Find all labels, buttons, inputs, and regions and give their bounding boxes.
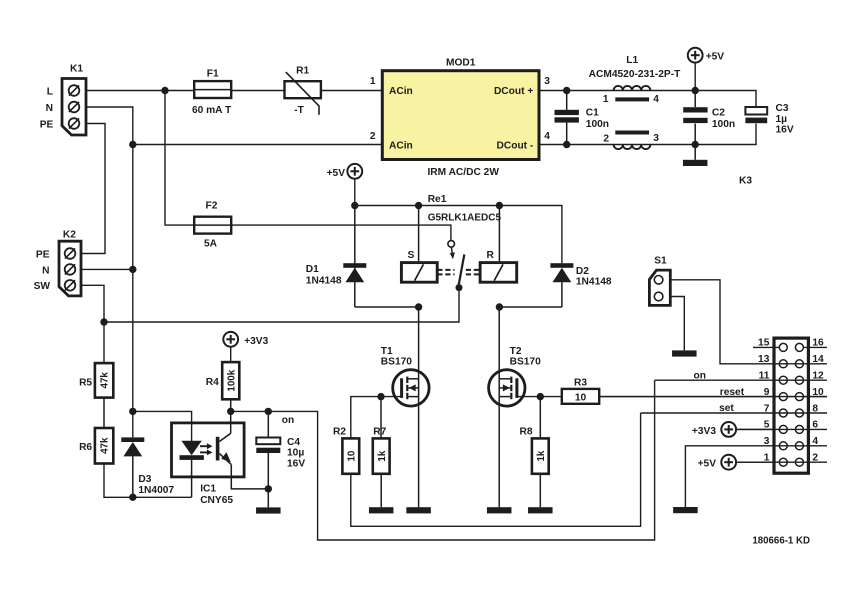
wire on-net from R4 node bbox=[231, 380, 655, 540]
ground (R8) bbox=[528, 474, 553, 514]
ground (S1) bbox=[672, 350, 697, 356]
wire pin1 row bbox=[736, 461, 827, 463]
svg-text:47k: 47k bbox=[100, 372, 111, 389]
svg-text:2: 2 bbox=[812, 453, 818, 464]
svg-text:1k: 1k bbox=[377, 450, 388, 461]
connector K2 bbox=[34, 230, 81, 296]
wire pin5 row bbox=[736, 428, 827, 430]
svg-text:R1: R1 bbox=[296, 66, 309, 77]
wire DCout+ rail bbox=[539, 91, 756, 108]
switch pivot bbox=[456, 284, 463, 291]
transistor T1 BS170 bbox=[381, 346, 429, 406]
supply +5V (filter) bbox=[688, 48, 725, 91]
wire relay +5V rail bbox=[355, 206, 562, 264]
svg-text:IC1: IC1 bbox=[200, 484, 216, 495]
svg-text:8: 8 bbox=[812, 403, 818, 414]
svg-text:C1: C1 bbox=[586, 107, 599, 118]
ground (pin3) bbox=[673, 507, 698, 513]
wire DCout- rail bbox=[539, 124, 756, 145]
opto light arrows bbox=[200, 443, 213, 455]
svg-text:PE: PE bbox=[40, 119, 54, 130]
diode D1 1N4148 bbox=[306, 206, 367, 308]
svg-text:+3V3: +3V3 bbox=[244, 336, 268, 347]
svg-text:G5RLK1AEDC5: G5RLK1AEDC5 bbox=[428, 212, 502, 223]
relay contact link bbox=[437, 270, 480, 275]
transistor T2 BS170 bbox=[489, 346, 541, 406]
svg-text:ACin: ACin bbox=[389, 86, 413, 97]
ground (T1) bbox=[406, 507, 431, 513]
svg-text:CNY65: CNY65 bbox=[200, 495, 233, 506]
connector K1 bbox=[40, 63, 86, 135]
svg-text:1N4148: 1N4148 bbox=[576, 277, 612, 288]
svg-text:10: 10 bbox=[346, 450, 357, 461]
svg-text:F2: F2 bbox=[206, 200, 218, 211]
wire R2 to set pin bbox=[351, 413, 641, 526]
connector S1 bbox=[649, 256, 670, 306]
opto phototransistor bbox=[216, 411, 268, 489]
svg-text:K1: K1 bbox=[70, 63, 83, 74]
svg-text:10: 10 bbox=[812, 387, 824, 398]
node N / K2 bbox=[129, 266, 136, 273]
svg-text:14: 14 bbox=[812, 354, 824, 365]
svg-text:F1: F1 bbox=[207, 69, 219, 80]
svg-text:D3: D3 bbox=[138, 474, 151, 485]
svg-text:9: 9 bbox=[764, 387, 770, 398]
svg-text:reset: reset bbox=[720, 387, 745, 398]
svg-text:BS170: BS170 bbox=[381, 357, 412, 368]
svg-text:R8: R8 bbox=[520, 427, 533, 438]
svg-text:-T: -T bbox=[294, 105, 304, 116]
node D3 bottom bbox=[129, 494, 136, 501]
svg-text:on: on bbox=[694, 371, 706, 382]
wire R7 stem bbox=[380, 397, 382, 439]
relay coil S bbox=[401, 206, 437, 283]
wire pin13 row bbox=[774, 363, 827, 365]
svg-text:16V: 16V bbox=[776, 125, 794, 136]
node T2 gate bbox=[537, 393, 544, 400]
node +5V/C2 top bbox=[692, 87, 699, 94]
label on (left) bbox=[282, 415, 294, 426]
ground (T2) bbox=[487, 507, 512, 513]
svg-text:IRM AC/DC 2W: IRM AC/DC 2W bbox=[427, 167, 499, 178]
wire R1 to MOD1 pin1 bbox=[321, 90, 382, 92]
fuse F1 bbox=[192, 69, 232, 117]
svg-text:16V: 16V bbox=[287, 458, 305, 469]
svg-text:1: 1 bbox=[370, 76, 376, 87]
svg-text:R5: R5 bbox=[79, 378, 92, 389]
header pin numbers bbox=[758, 338, 824, 464]
switch fixed contact bbox=[448, 241, 455, 260]
ground (C2) bbox=[683, 145, 708, 167]
svg-text:BS170: BS170 bbox=[510, 357, 541, 368]
svg-text:N: N bbox=[46, 103, 53, 114]
svg-text:3: 3 bbox=[764, 436, 770, 447]
node DCout+/C1 bbox=[563, 87, 570, 94]
ground (C4/opto) bbox=[256, 489, 281, 514]
svg-text:7: 7 bbox=[764, 403, 770, 414]
node R coil bottom bbox=[496, 303, 503, 310]
svg-text:Re1: Re1 bbox=[428, 194, 447, 205]
svg-text:5A: 5A bbox=[204, 238, 218, 249]
svg-text:set: set bbox=[719, 403, 734, 414]
supply +3V3 (header) bbox=[692, 422, 774, 437]
svg-text:S1: S1 bbox=[654, 256, 667, 267]
node T1 gate bbox=[377, 393, 384, 400]
wire R coil bottom to D2 bbox=[499, 306, 562, 308]
svg-text:C4: C4 bbox=[287, 437, 300, 448]
svg-text:4: 4 bbox=[544, 131, 550, 142]
svg-text:100k: 100k bbox=[226, 369, 237, 391]
wire K2 SW bbox=[81, 285, 104, 363]
svg-text:K3: K3 bbox=[739, 176, 752, 187]
svg-text:L: L bbox=[47, 86, 53, 97]
diode D3 1N4007 bbox=[121, 437, 174, 497]
svg-text:N: N bbox=[42, 265, 49, 276]
svg-text:6: 6 bbox=[812, 420, 818, 431]
svg-text:R2: R2 bbox=[333, 427, 346, 438]
svg-text:SW: SW bbox=[34, 281, 51, 292]
svg-text:100n: 100n bbox=[712, 119, 735, 130]
label K3 bbox=[739, 176, 752, 187]
svg-text:1N4148: 1N4148 bbox=[306, 276, 342, 287]
label on (header) bbox=[694, 371, 706, 382]
svg-text:15: 15 bbox=[758, 338, 770, 349]
wire R5-R6 bbox=[103, 398, 105, 428]
node DCout-/C1 bbox=[563, 141, 570, 148]
node rail/R coil bbox=[496, 202, 503, 209]
svg-text:10: 10 bbox=[575, 393, 587, 404]
svg-text:on: on bbox=[282, 415, 294, 426]
svg-text:180666-1 KD: 180666-1 KD bbox=[752, 536, 810, 547]
inductor L1 ACM4520-231-2P-T bbox=[589, 55, 681, 149]
supply +5V (header) bbox=[698, 455, 774, 470]
capacitor C2 100n bbox=[683, 91, 735, 145]
svg-text:R4: R4 bbox=[206, 377, 219, 388]
wire pin7 row (set) bbox=[641, 412, 827, 414]
resistor R1 (NTC) bbox=[285, 66, 321, 116]
wire T1 gate to R2/R7 bbox=[351, 397, 402, 439]
optocoupler IC1 CNY65 box bbox=[172, 423, 245, 506]
resistor R8 1k bbox=[520, 397, 549, 474]
node C4 top bbox=[265, 408, 272, 415]
svg-text:4: 4 bbox=[812, 436, 818, 447]
wire S1 to pin13 bbox=[670, 280, 774, 364]
node junction L/F2 branch bbox=[161, 87, 168, 94]
node SW junction bbox=[100, 318, 107, 325]
svg-text:2: 2 bbox=[370, 131, 376, 142]
svg-text:MOD1: MOD1 bbox=[446, 58, 476, 69]
wire F2 to switch bbox=[231, 225, 451, 241]
svg-text:T1: T1 bbox=[381, 346, 393, 357]
wire ACin2 bbox=[133, 144, 382, 146]
svg-text:47k: 47k bbox=[100, 437, 111, 454]
svg-text:2: 2 bbox=[603, 133, 609, 144]
svg-text:4: 4 bbox=[653, 94, 659, 105]
resistor R3 10 bbox=[562, 378, 599, 404]
svg-text:16: 16 bbox=[812, 338, 824, 349]
svg-text:S: S bbox=[408, 250, 415, 261]
wire R3 to reset pin bbox=[599, 396, 827, 398]
wire pin3 row to ground bbox=[685, 446, 827, 507]
svg-text:C3: C3 bbox=[776, 103, 789, 114]
svg-text:3: 3 bbox=[653, 133, 659, 144]
resistor R5 47k bbox=[79, 363, 113, 398]
opto LED bbox=[180, 441, 204, 498]
header pin pads bbox=[779, 343, 803, 466]
svg-text:60 mA T: 60 mA T bbox=[192, 105, 232, 116]
label 180666-1 KD bbox=[752, 536, 810, 547]
svg-text:1: 1 bbox=[603, 94, 609, 105]
wire L from K1 to F1 bbox=[86, 90, 194, 92]
wire R coil to T2 drain bbox=[498, 307, 500, 507]
svg-text:D2: D2 bbox=[576, 266, 589, 277]
svg-text:ACM4520-231-2P-T: ACM4520-231-2P-T bbox=[589, 69, 681, 80]
node rail/D1 bbox=[351, 202, 358, 209]
ground (R7) bbox=[369, 474, 394, 514]
wire D1 to S coil bottom bbox=[355, 306, 419, 308]
svg-text:11: 11 bbox=[759, 371, 770, 382]
svg-text:1µ: 1µ bbox=[776, 114, 788, 125]
svg-text:L1: L1 bbox=[626, 55, 638, 66]
svg-text:13: 13 bbox=[758, 354, 770, 365]
resistor R4 100k bbox=[206, 362, 240, 411]
wire pin15 stub bbox=[753, 346, 827, 348]
fuse F2 bbox=[194, 200, 231, 249]
label Re1 bbox=[428, 194, 502, 224]
node C2 bottom bbox=[692, 141, 699, 148]
svg-text:12: 12 bbox=[812, 371, 824, 382]
wire S1 to ground bbox=[670, 297, 684, 351]
svg-text:DCout +: DCout + bbox=[494, 86, 533, 97]
wire N to opto LED bbox=[133, 411, 192, 441]
svg-text:+3V3: +3V3 bbox=[692, 426, 716, 437]
svg-text:D1: D1 bbox=[306, 264, 319, 275]
svg-text:3: 3 bbox=[544, 76, 550, 87]
wire L branch down to F2 bbox=[165, 91, 194, 226]
svg-text:K2: K2 bbox=[63, 230, 76, 241]
wire PE from K1 to K2 bbox=[81, 124, 105, 254]
node opto collector / R4 bbox=[227, 408, 234, 415]
wire pin9 row (reset) bbox=[599, 396, 827, 398]
svg-text:PE: PE bbox=[36, 249, 50, 260]
svg-text:DCout -: DCout - bbox=[497, 140, 534, 151]
svg-text:R3: R3 bbox=[574, 378, 587, 389]
wire K2 N bbox=[81, 268, 133, 270]
node C4 bottom / emitter bbox=[265, 485, 272, 492]
svg-text:R6: R6 bbox=[79, 442, 92, 453]
resistor R7 1k bbox=[373, 427, 390, 474]
wire pin11 row (on) bbox=[655, 379, 827, 381]
capacitor C1 100n bbox=[555, 91, 610, 145]
node rail/S coil bbox=[415, 202, 422, 209]
svg-text:100n: 100n bbox=[586, 119, 609, 130]
wire T2 gate to R3 bbox=[517, 396, 562, 398]
wire R6 bottom bbox=[104, 464, 192, 498]
svg-text:R: R bbox=[487, 250, 495, 261]
svg-text:1N4007: 1N4007 bbox=[138, 485, 174, 496]
svg-text:R7: R7 bbox=[373, 427, 386, 438]
svg-text:ACin: ACin bbox=[389, 140, 413, 151]
label set bbox=[719, 403, 734, 414]
capacitor C4 10u 16V bbox=[256, 411, 305, 489]
wire N from K1 down bbox=[86, 107, 133, 437]
connector K-header box bbox=[774, 338, 808, 473]
resistor R2 10 bbox=[333, 427, 359, 474]
wire F1 to R1 bbox=[231, 90, 284, 92]
wire switch to SW line bbox=[104, 288, 459, 322]
svg-text:+5V: +5V bbox=[327, 168, 346, 179]
label reset bbox=[720, 387, 745, 398]
svg-text:+5V: +5V bbox=[698, 459, 717, 470]
svg-text:10µ: 10µ bbox=[287, 448, 304, 459]
node S coil bottom bbox=[415, 303, 422, 310]
svg-text:C2: C2 bbox=[712, 107, 725, 118]
supply +3V3 (R4) bbox=[223, 332, 268, 362]
svg-text:1k: 1k bbox=[536, 450, 547, 461]
supply +5V (relay) bbox=[327, 164, 363, 206]
capacitor C3 1u 16V bbox=[745, 103, 793, 135]
diode D2 1N4148 bbox=[550, 263, 612, 307]
resistor R6 47k bbox=[79, 428, 113, 464]
relay coil R bbox=[480, 206, 517, 283]
svg-text:+5V: +5V bbox=[706, 52, 725, 63]
node N / ACin2 bbox=[129, 141, 136, 148]
wire S coil to T1 drain bbox=[418, 307, 420, 507]
svg-text:T2: T2 bbox=[510, 346, 522, 357]
module MOD1 IRM AC/DC 2W bbox=[370, 58, 550, 178]
switch lever bbox=[458, 255, 464, 288]
node N / D3 bbox=[129, 408, 136, 415]
